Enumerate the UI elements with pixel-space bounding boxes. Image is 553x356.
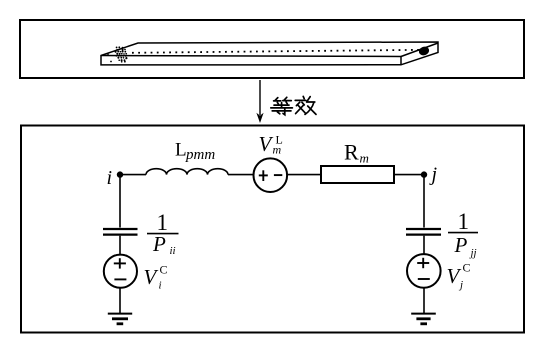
node i junction dot <box>117 171 123 177</box>
svg-text:m: m <box>360 151 369 166</box>
wire resistor to node j <box>394 174 424 176</box>
wire node i to inductor <box>120 174 146 176</box>
svg-text:C: C <box>463 261 471 275</box>
voltage source VmL circle <box>253 158 287 192</box>
capacitor 1/Pii plates <box>103 228 138 230</box>
equivalence arrow <box>259 80 261 115</box>
wire capacitor to source ViC <box>119 236 121 255</box>
wire source VjC to ground <box>423 288 425 314</box>
resistor Rm body <box>321 166 394 183</box>
svg-text:i: i <box>107 167 113 189</box>
voltage source VjC circle <box>407 254 441 288</box>
svg-text:1: 1 <box>458 209 470 234</box>
bottom box frame <box>21 126 524 333</box>
wire source ViC to ground <box>119 288 121 314</box>
等 <box>274 98 281 105</box>
ground right <box>411 313 436 315</box>
svg-text:V: V <box>144 265 159 289</box>
svg-text:V: V <box>259 132 274 156</box>
inductor Lpmm <box>146 169 228 175</box>
svg-text:R: R <box>344 140 359 165</box>
plus/minus of source VjC <box>417 258 430 279</box>
voltage source ViC circle <box>104 255 137 288</box>
top box frame <box>20 20 524 78</box>
效 <box>295 96 306 100</box>
bar left-end stipple port <box>107 46 127 62</box>
svg-text:ii: ii <box>170 245 176 257</box>
conductor bar 3D body <box>101 42 438 65</box>
ground left <box>108 313 132 315</box>
capacitor 1/Pjj plates <box>406 228 441 230</box>
wire inductor to source VmL <box>228 174 254 176</box>
plus/minus of source VmL <box>259 170 283 181</box>
wire capacitor to source VjC <box>423 236 425 255</box>
left branch wire i to capacitor <box>119 175 121 228</box>
svg-text:P: P <box>454 233 468 257</box>
svg-text:C: C <box>160 263 168 277</box>
wire source to resistor <box>287 174 321 176</box>
label 等效 (drawn strokes) <box>271 96 316 114</box>
bar right-end black terminal <box>418 45 431 56</box>
node j junction dot <box>421 171 427 177</box>
svg-text:pmm: pmm <box>185 147 215 163</box>
plus/minus of source ViC <box>114 258 127 279</box>
svg-text:i: i <box>159 280 162 292</box>
svg-text:m: m <box>273 143 282 157</box>
svg-text:L: L <box>175 140 187 161</box>
bar top-face dotted line <box>132 50 424 53</box>
svg-text:P: P <box>152 232 166 256</box>
right branch wire j to capacitor <box>423 175 425 228</box>
svg-text:jj: jj <box>469 247 477 259</box>
